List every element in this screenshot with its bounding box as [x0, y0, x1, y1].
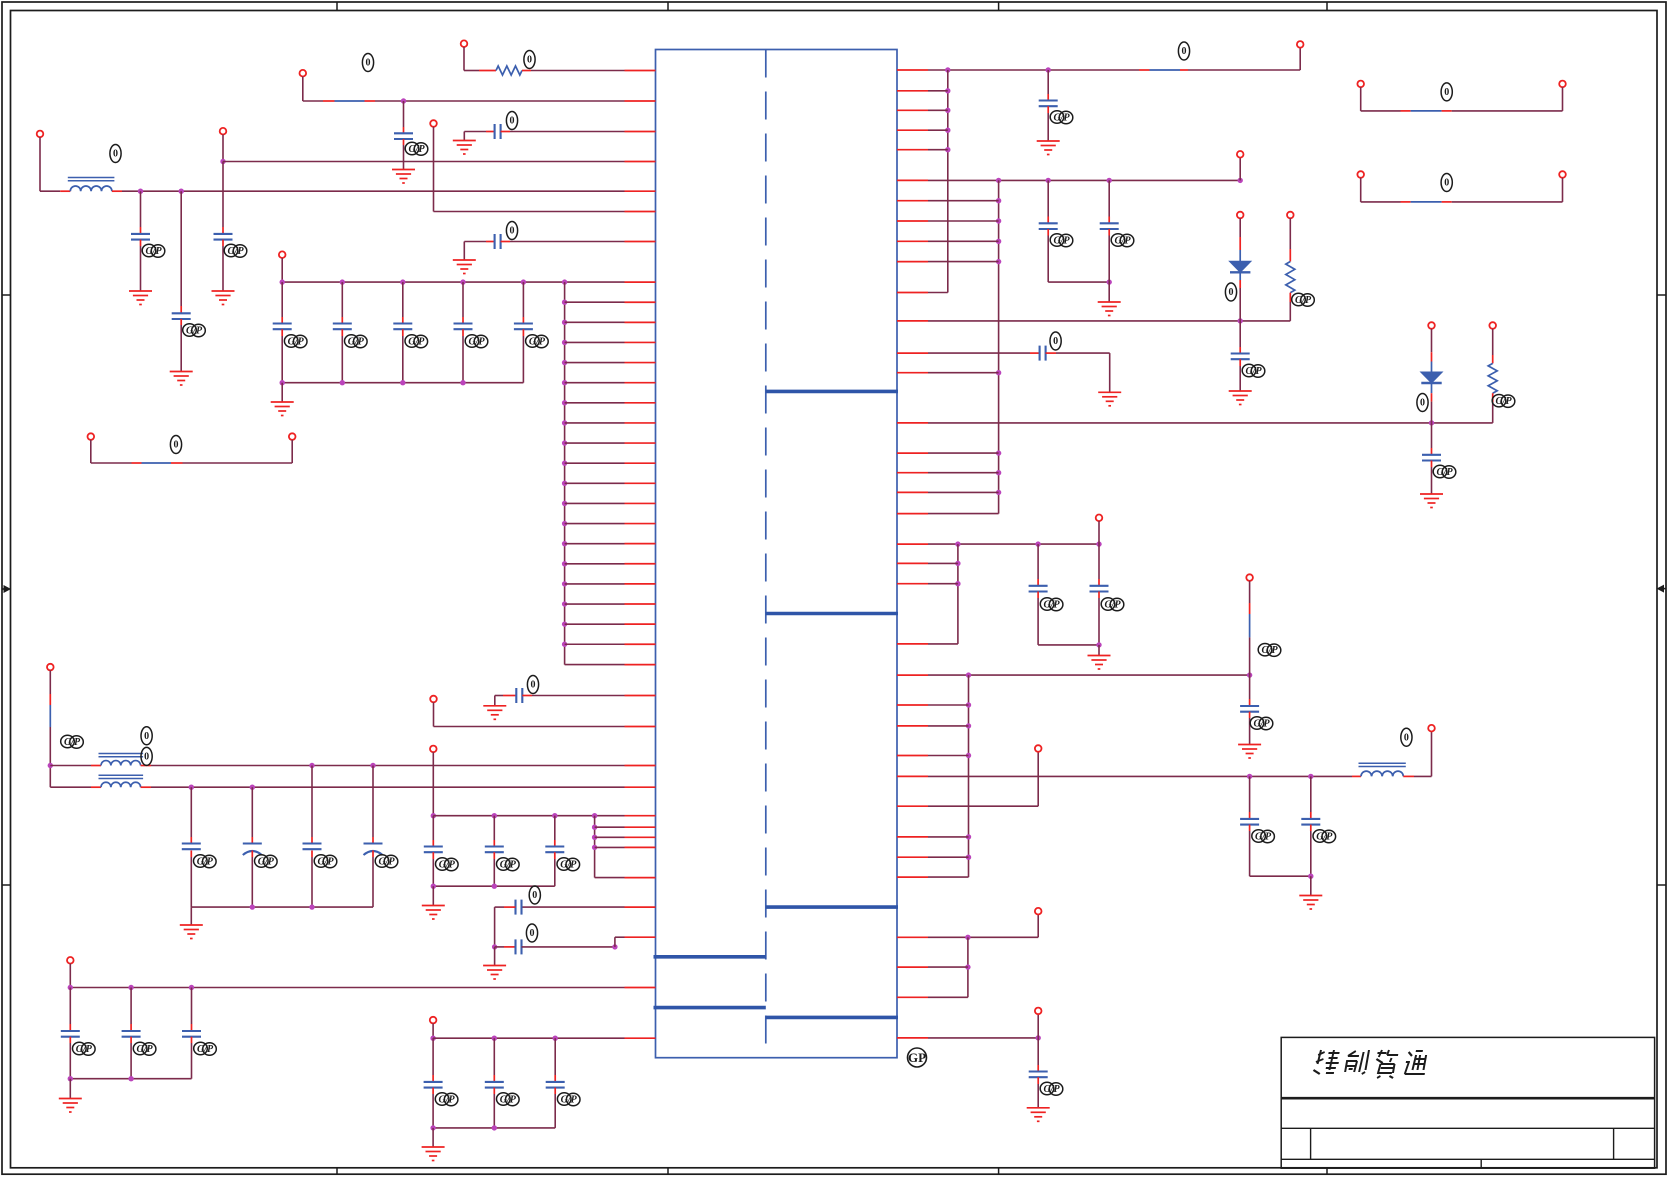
svg-text:0: 0 — [1053, 336, 1058, 347]
svg-text:G/P: G/P — [561, 1095, 578, 1106]
svg-text:0: 0 — [113, 149, 118, 160]
svg-text:G/P: G/P — [1053, 113, 1070, 124]
svg-text:0: 0 — [1404, 733, 1409, 744]
svg-text:0: 0 — [510, 116, 515, 127]
svg-text:G/P: G/P — [348, 337, 365, 348]
svg-text:G/P: G/P — [408, 337, 425, 348]
svg-text:G/P: G/P — [439, 1095, 456, 1106]
svg-text:0: 0 — [144, 752, 149, 763]
svg-text:0: 0 — [174, 440, 179, 451]
svg-text:G/P: G/P — [145, 246, 162, 257]
svg-text:G/P: G/P — [288, 337, 305, 348]
svg-text:G/P: G/P — [317, 857, 334, 868]
svg-text:G/P: G/P — [197, 1044, 214, 1055]
svg-text:G/P: G/P — [186, 326, 203, 337]
svg-text:G/P: G/P — [137, 1044, 154, 1055]
svg-text:0: 0 — [532, 890, 537, 901]
svg-text:G/P: G/P — [1253, 719, 1270, 730]
svg-text:G/P: G/P — [560, 860, 577, 871]
svg-text:0: 0 — [527, 55, 532, 66]
svg-text:G/P: G/P — [378, 857, 395, 868]
svg-text:0: 0 — [510, 226, 515, 237]
svg-text:G/P: G/P — [1295, 295, 1312, 306]
svg-text:G/P: G/P — [258, 857, 275, 868]
svg-text:0: 0 — [144, 731, 149, 742]
svg-text:0: 0 — [1420, 398, 1425, 409]
svg-text:G/P: G/P — [500, 860, 517, 871]
svg-text:G/P: G/P — [529, 337, 546, 348]
svg-text:0: 0 — [1182, 46, 1187, 57]
svg-text:G/P: G/P — [468, 337, 485, 348]
svg-text:G/P: G/P — [1053, 236, 1070, 247]
svg-text:GP: GP — [908, 1050, 926, 1065]
svg-text:G/P: G/P — [227, 246, 244, 257]
svg-text:0: 0 — [366, 58, 371, 69]
svg-text:G/P: G/P — [439, 860, 456, 871]
svg-text:G/P: G/P — [408, 144, 425, 155]
svg-text:G/P: G/P — [1261, 645, 1278, 656]
svg-text:G/P: G/P — [1316, 832, 1333, 843]
svg-text:G/P: G/P — [500, 1095, 517, 1106]
svg-text:0: 0 — [530, 928, 535, 939]
svg-text:G/P: G/P — [1044, 600, 1061, 611]
svg-text:G/P: G/P — [1104, 600, 1121, 611]
svg-text:G/P: G/P — [76, 1044, 93, 1055]
svg-text:0: 0 — [1229, 287, 1234, 298]
svg-text:G/P: G/P — [1043, 1084, 1060, 1095]
svg-text:G/P: G/P — [197, 857, 214, 868]
svg-text:G/P: G/P — [1495, 396, 1512, 407]
svg-text:G/P: G/P — [64, 737, 81, 748]
svg-text:G/P: G/P — [1114, 236, 1131, 247]
svg-text:G/P: G/P — [1245, 366, 1262, 377]
svg-text:G/P: G/P — [1436, 467, 1453, 478]
svg-text:0: 0 — [1444, 87, 1449, 98]
svg-text:G/P: G/P — [1255, 832, 1272, 843]
svg-text:0: 0 — [531, 680, 536, 691]
svg-text:0: 0 — [1444, 178, 1449, 189]
